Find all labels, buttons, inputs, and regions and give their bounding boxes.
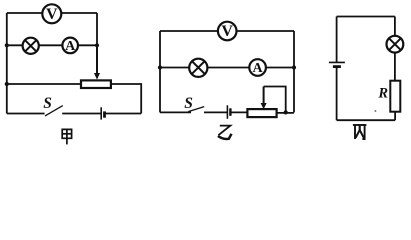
svg-text:V: V bbox=[221, 23, 233, 40]
wire: top horizontal of 乙 bbox=[160, 30, 294, 32]
label 丙 bbox=[353, 125, 367, 139]
wire: bottom horizontal of 丙 bbox=[337, 119, 396, 121]
wire: top horizontal of 丙 bbox=[337, 16, 395, 18]
rheostat wiper arrow of 甲 bbox=[94, 45, 100, 79]
svg-text:S: S bbox=[184, 95, 193, 112]
wire: rheostat right lead of 甲 bbox=[111, 84, 141, 114]
speck artifact bbox=[374, 110, 376, 112]
wire: second horizontal of 乙 (lamp/ammeter branch) bbox=[160, 67, 294, 69]
ammeter A of 甲 bbox=[62, 38, 78, 54]
wire: battery to rheostat of 乙 bbox=[231, 111, 248, 113]
wire: left vertical of 乙 bbox=[159, 31, 161, 112]
wire: bottom left segment of 乙 bbox=[160, 111, 191, 113]
wire: bottom middle segment of 甲 bbox=[62, 113, 101, 115]
lamp of 乙 bbox=[189, 59, 207, 77]
lamp of 丙 bbox=[387, 36, 404, 53]
ammeter A of 乙 bbox=[249, 59, 266, 76]
label 乙 bbox=[218, 126, 232, 139]
wire: right vertical of 乙 bbox=[293, 31, 295, 112]
wire: second horizontal of 甲 (lamp/ammeter branch) bbox=[7, 44, 97, 46]
wire: rheostat right lead of 乙 bbox=[277, 112, 294, 114]
wire: left vertical upper of 丙 bbox=[336, 17, 338, 63]
rheostat wiper arrow of 乙 bbox=[261, 87, 267, 110]
wire: left vertical lower of 丙 bbox=[336, 68, 338, 120]
rheostat box of 乙 bbox=[247, 109, 276, 117]
resistor R box of 丙 bbox=[390, 81, 400, 112]
wire: bottom middle segment of 乙 bbox=[204, 111, 227, 113]
switch S of 甲 bbox=[43, 95, 63, 116]
wire: third horizontal of 甲 (to rheostat) bbox=[7, 83, 81, 85]
wire: right vertical of 甲 (top loop to wiper) bbox=[96, 13, 98, 75]
lamp of 甲 bbox=[23, 38, 39, 54]
wire: bottom left segment of 甲 bbox=[7, 113, 45, 115]
svg-text:V: V bbox=[46, 6, 58, 23]
svg-text:R: R bbox=[377, 85, 388, 101]
node: junction dot right of lamp branch bbox=[95, 43, 99, 47]
battery of 乙 bbox=[227, 105, 230, 119]
rheostat box of 甲 bbox=[81, 80, 111, 88]
wire: right vertical lower of 丙 bbox=[394, 112, 396, 121]
wire: bottom right segment of 甲 bbox=[104, 113, 141, 115]
wire: top horizontal of 甲 bbox=[7, 12, 97, 14]
node: junction dot left of lamp branch of 乙 bbox=[158, 65, 162, 69]
node: junction dot right of lamp branch of 乙 bbox=[292, 65, 296, 69]
switch S of 乙 bbox=[184, 95, 204, 112]
node: junction dot third wire bbox=[5, 82, 9, 86]
battery of 甲 bbox=[101, 107, 104, 119]
label 甲 bbox=[62, 129, 71, 144]
node: junction dot wiper loop of 乙 bbox=[284, 110, 288, 114]
voltmeter V of 甲 bbox=[42, 4, 61, 23]
svg-text:S: S bbox=[43, 95, 52, 112]
node: junction dot left of lamp branch bbox=[5, 43, 9, 47]
wire: right vertical upper of 丙 bbox=[394, 17, 396, 37]
svg-text:A: A bbox=[65, 39, 76, 54]
svg-text:A: A bbox=[253, 61, 264, 76]
voltmeter V of 乙 bbox=[218, 22, 237, 41]
battery of 丙 bbox=[329, 62, 345, 66]
wire: left vertical of 甲 bbox=[6, 13, 8, 114]
wire: right vertical middle of 丙 bbox=[394, 53, 396, 81]
wire: wiper loop of 乙 bbox=[264, 87, 286, 113]
